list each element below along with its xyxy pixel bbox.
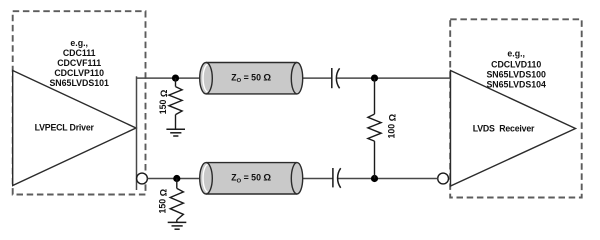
- resistor 150 ohm (bottom): [170, 179, 183, 223]
- right dashed box (LVDS receiver block): [450, 19, 582, 197]
- wire: top rail, transmission line to capacitor: [303, 77, 332, 79]
- receiver inverting-input bubble: [438, 173, 449, 184]
- svg-text:SN65LVDS101: SN65LVDS101: [49, 78, 109, 88]
- LVPECL driver triangle: [13, 71, 136, 186]
- ground (bottom 150 ohm): [168, 222, 187, 229]
- resistor 100 ohm (termination): [368, 78, 381, 178]
- junction dot: top rail at 150 ohm: [172, 75, 179, 82]
- svg-text:CDCLVD110: CDCLVD110: [491, 59, 541, 69]
- wire: bottom rail, bubble to transmission line: [147, 178, 200, 180]
- wire: bottom rail, capacitor to receiver bubble: [338, 178, 438, 180]
- wire: top rail, driver to transmission line: [137, 77, 201, 79]
- svg-text:100 Ω: 100 Ω: [386, 113, 397, 138]
- wire: bottom rail, transmission line to capacitor: [303, 178, 333, 180]
- transmission line Z0=50 ohm (top): [200, 62, 303, 93]
- svg-text:SN65LVDS104: SN65LVDS104: [486, 80, 546, 90]
- ground (top 150 ohm): [166, 129, 185, 136]
- driver inverted-output bubble: [137, 173, 148, 184]
- svg-text:CDC111: CDC111: [63, 48, 96, 58]
- svg-text:150 Ω: 150 Ω: [157, 89, 168, 114]
- label list: receiver examples: [486, 48, 546, 89]
- svg-text:LVDS Receiver: LVDS Receiver: [473, 124, 535, 134]
- svg-text:e.g.,: e.g.,: [70, 38, 88, 48]
- capacitor (bottom rail): [333, 168, 341, 188]
- LVDS receiver triangle: [451, 71, 576, 187]
- svg-text:LVPECL Driver: LVPECL Driver: [35, 123, 95, 133]
- left dashed box (LVPECL driver block): [13, 11, 146, 194]
- transmission line Z0=50 ohm (bottom): [200, 163, 303, 194]
- junction dot: bottom rail at 100 ohm: [371, 175, 378, 182]
- svg-text:SN65LVDS100: SN65LVDS100: [486, 70, 546, 80]
- junction dot: bottom rail at 150 ohm: [173, 175, 180, 182]
- svg-text:150 Ω: 150 Ω: [157, 188, 168, 213]
- driver output bar wire: [136, 76, 138, 190]
- resistor 150 ohm (top): [169, 78, 182, 129]
- capacitor (top rail): [332, 68, 340, 88]
- svg-text:CDCLVP110: CDCLVP110: [54, 68, 104, 78]
- svg-text:CDCVF111: CDCVF111: [57, 58, 101, 68]
- label list: driver examples: [49, 38, 109, 88]
- junction dot: top rail at 100 ohm: [371, 75, 378, 82]
- wire: top rail, capacitor to receiver: [337, 77, 451, 79]
- svg-text:e.g.,: e.g.,: [507, 48, 525, 58]
